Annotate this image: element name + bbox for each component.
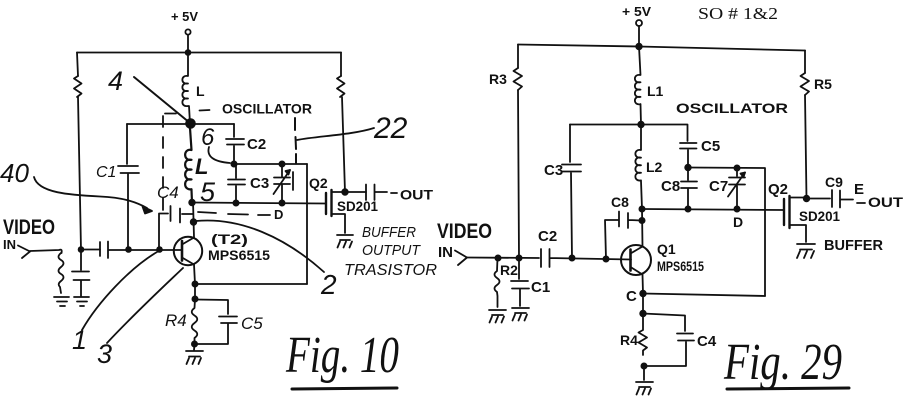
wire: left rail drop bbox=[77, 53, 78, 77]
svg-text:Q1: Q1 bbox=[657, 241, 676, 257]
svg-text:R3: R3 bbox=[489, 71, 507, 87]
svg-text:C5: C5 bbox=[701, 138, 720, 155]
wire: node4 left arm to C1 bbox=[127, 123, 190, 125]
label (T2) MPS6515 bbox=[208, 231, 271, 263]
capacitor C4 bbox=[643, 314, 717, 367]
inductor L2 bbox=[635, 125, 662, 210]
ground (R4 fig29) bbox=[636, 382, 653, 395]
svg-text:SO # 1&2: SO # 1&2 bbox=[698, 4, 778, 23]
mosfet Q2 SD201 bbox=[326, 190, 345, 233]
label Q1 MPS6515 bbox=[657, 241, 704, 274]
capacitor C8 (feedback) bbox=[605, 194, 642, 259]
svg-text:R4: R4 bbox=[165, 311, 187, 330]
svg-text:C2: C2 bbox=[247, 136, 266, 153]
svg-text:6: 6 bbox=[201, 124, 215, 151]
node: R4/C5 split bbox=[192, 296, 197, 301]
svg-text:OUTPUT: OUTPUT bbox=[362, 242, 422, 259]
inductor L2 (lower, bold) bbox=[185, 128, 192, 203]
node: emitter row C bbox=[640, 291, 646, 297]
leader curve from 40 with arrowhead bbox=[34, 177, 152, 214]
+5V supply terminal bbox=[622, 4, 651, 26]
capacitor (output coupling) bbox=[366, 185, 387, 201]
svg-text:OSCILLATOR: OSCILLATOR bbox=[222, 101, 312, 117]
wire: right feedback drop (mid row to emitter row) bbox=[306, 164, 308, 284]
capacitor C3 bbox=[228, 165, 269, 203]
wire: R3 to base row bbox=[518, 90, 519, 258]
leader curve from 22 bbox=[297, 128, 374, 140]
label VIDEO IN (fig29) bbox=[437, 220, 492, 261]
label OUT with tick bbox=[857, 194, 904, 210]
wire: top supply rail (sloped) bbox=[518, 45, 805, 51]
input chevron (fig29) bbox=[455, 251, 467, 266]
wire: emitter row to feedback drop bbox=[195, 283, 307, 285]
svg-text:BUFFER: BUFFER bbox=[362, 224, 416, 241]
node: rail junction bbox=[186, 50, 191, 55]
svg-text:L: L bbox=[195, 154, 208, 179]
dashed row with D bbox=[198, 212, 270, 215]
transistor T2 MPS6515 bbox=[174, 237, 202, 265]
svg-text:C4: C4 bbox=[157, 183, 179, 202]
label VIDEO IN bbox=[3, 216, 55, 252]
inductor L (upper) bbox=[182, 55, 190, 124]
svg-text:OSCILLATOR: OSCILLATOR bbox=[676, 100, 788, 116]
svg-text:IN: IN bbox=[3, 237, 16, 252]
svg-text:22: 22 bbox=[373, 112, 408, 145]
wire: emitter to R4 bbox=[642, 294, 644, 314]
svg-text:C3: C3 bbox=[250, 175, 269, 192]
wire: mid row (C2 bottom to box corner) bbox=[234, 163, 307, 165]
wire: right rail drop bbox=[804, 51, 806, 74]
wire: tap row (C3 to C5 corner) bbox=[570, 125, 688, 142]
svg-text:Fig. 10: Fig. 10 bbox=[285, 327, 399, 384]
svg-text:5: 5 bbox=[200, 177, 216, 207]
wire: emitter down bbox=[194, 265, 195, 285]
node: R2 junction bbox=[495, 255, 500, 260]
capacitor C4 bbox=[159, 206, 193, 250]
node: C8 bottom bbox=[685, 206, 690, 211]
svg-text:C1: C1 bbox=[96, 164, 116, 181]
node: R4/C4 split bbox=[640, 311, 646, 317]
node: L1/L2 tap bbox=[638, 122, 644, 128]
node: C7 bottom bbox=[734, 206, 739, 211]
svg-text:(T2): (T2) bbox=[211, 231, 248, 247]
label Fig. 10 (handwritten) bbox=[285, 327, 399, 389]
node 4: oscillator tap node bbox=[186, 119, 195, 128]
svg-text:C8: C8 bbox=[611, 194, 629, 210]
wire: node4 right arm to C2 bbox=[190, 123, 234, 125]
svg-text:L2: L2 bbox=[646, 159, 663, 175]
variable capacitor (trimmer) bbox=[274, 164, 294, 203]
svg-text:C4: C4 bbox=[697, 333, 717, 350]
wire: gate row bbox=[642, 209, 784, 210]
resistor R4 (squiggle) bbox=[165, 299, 197, 344]
node: emitter row bbox=[192, 281, 197, 286]
node: L2 bottom / collector top bbox=[639, 206, 644, 211]
ground (C1) bbox=[512, 308, 529, 321]
node: C5 bottom bbox=[685, 165, 691, 171]
resistor (left bias, unlabeled) bbox=[74, 76, 82, 97]
ground (R4) bbox=[186, 351, 203, 364]
transistor Q1 MPS6515 bbox=[621, 245, 651, 275]
svg-text:SD201: SD201 bbox=[337, 199, 378, 214]
svg-text:TRASISTOR: TRASISTOR bbox=[344, 262, 437, 279]
node: rail junction bbox=[636, 44, 642, 50]
svg-text:C: C bbox=[626, 288, 637, 305]
wire: base row to transistor bbox=[129, 249, 183, 251]
svg-text:C5: C5 bbox=[241, 314, 263, 333]
svg-text:C3: C3 bbox=[544, 162, 563, 179]
svg-text:OUT: OUT bbox=[868, 194, 904, 210]
wire: collector up bbox=[193, 201, 194, 238]
node: Q2 drain junction bbox=[804, 196, 810, 202]
resistor (right bias, unlabeled) bbox=[337, 76, 345, 97]
svg-text:C8: C8 bbox=[661, 178, 680, 195]
wire: gate row (node to Q2 gate) bbox=[192, 203, 326, 204]
ground (Q2 source) bbox=[797, 244, 815, 258]
ground (input) bbox=[54, 297, 69, 306]
wire: emitter to R4 bbox=[194, 284, 196, 299]
node: R4 bottom bbox=[192, 341, 197, 346]
leader curve from 3 to emitter bbox=[107, 268, 183, 343]
svg-text:MPS6515: MPS6515 bbox=[657, 259, 704, 274]
capacitor (input coupling) bbox=[100, 242, 129, 259]
leader curve from 1 to base node bbox=[82, 252, 157, 330]
node: C1 to base wire bbox=[126, 247, 131, 252]
node: varactor bottom bbox=[279, 200, 284, 205]
wire: emitter down bbox=[642, 275, 645, 294]
node: C3 to base row bbox=[569, 255, 574, 260]
input chevron bbox=[18, 246, 30, 259]
capacitor C9 bbox=[807, 174, 854, 208]
svg-text:D: D bbox=[274, 207, 283, 222]
wire: +5V stem bbox=[638, 26, 640, 47]
svg-text:C2: C2 bbox=[538, 228, 557, 245]
node: C4 left to base wire bbox=[157, 247, 162, 252]
wire: +5V stem bbox=[187, 35, 189, 53]
wire: drain to out cap bbox=[345, 191, 366, 193]
svg-text:SD201: SD201 bbox=[799, 209, 840, 224]
svg-text:D: D bbox=[733, 214, 743, 230]
node: varactor top bbox=[279, 161, 284, 166]
node: C2 bottom junction bbox=[231, 161, 236, 166]
leader curve from 6 to C2 bottom bbox=[208, 147, 230, 163]
capacitor C8 (tank) bbox=[661, 168, 697, 210]
svg-text:R4: R4 bbox=[620, 332, 638, 348]
node: collector / curve-2 tap bbox=[191, 219, 197, 225]
svg-text:R5: R5 bbox=[814, 76, 832, 92]
node: C8 left to base bbox=[603, 256, 608, 261]
svg-text:E: E bbox=[854, 181, 864, 198]
node: R4 bottom bbox=[641, 363, 646, 368]
wire: emitter row to feedback drop bbox=[643, 294, 765, 297]
wire: left rail to input row bbox=[78, 97, 81, 250]
capacitor C5 bbox=[680, 138, 720, 168]
svg-text:MPS6515: MPS6515 bbox=[208, 248, 271, 263]
capacitor (left rail bypass) bbox=[72, 250, 90, 297]
wire: right rail down to Q2 drain bbox=[342, 97, 345, 192]
node: C7 top bbox=[734, 165, 739, 170]
dashed line (feedback region) bbox=[162, 116, 164, 210]
capacitor C2 bbox=[226, 124, 266, 164]
svg-text:C1: C1 bbox=[531, 279, 550, 296]
svg-text:VIDEO: VIDEO bbox=[437, 220, 492, 243]
leader line from 4 to node bbox=[134, 77, 190, 123]
wire: top supply rail bbox=[77, 52, 341, 54]
capacitor C3 bbox=[544, 125, 581, 259]
ground (left rail bypass) bbox=[74, 297, 89, 306]
wire: to ground bbox=[643, 366, 645, 380]
capacitor C5 bbox=[195, 300, 264, 345]
svg-text:L1: L1 bbox=[647, 83, 664, 99]
wire: base row bbox=[467, 257, 539, 260]
label Fig. 29 (handwritten) bbox=[723, 334, 849, 391]
resistor (input shunt, squiggle) bbox=[59, 253, 64, 293]
wire: feedback top row bbox=[688, 168, 765, 297]
svg-text:Q2: Q2 bbox=[768, 181, 788, 198]
wire: collector up bbox=[641, 209, 644, 247]
+5V supply terminal bbox=[171, 9, 198, 35]
resistor R5 bbox=[801, 73, 833, 95]
dashed pointer below OSCILLATOR bbox=[295, 118, 296, 163]
wire: left rail drop bbox=[517, 45, 519, 69]
inductor L1 bbox=[635, 47, 664, 125]
node: drain / rail junction bbox=[342, 189, 348, 195]
mosfet Q2 SD201 bbox=[784, 196, 807, 242]
capacitor C1 bbox=[511, 258, 550, 306]
svg-text:R2: R2 bbox=[500, 262, 518, 278]
svg-text:Fig. 29: Fig. 29 bbox=[723, 334, 842, 391]
wire: to ground bbox=[193, 344, 196, 350]
svg-text:C9: C9 bbox=[825, 174, 843, 190]
node: C8 right to collector bbox=[639, 218, 644, 223]
variable capacitor C7 bbox=[709, 168, 745, 209]
svg-text:2: 2 bbox=[320, 269, 337, 300]
capacitor C2 bbox=[538, 228, 631, 267]
node: C3 bottom bbox=[233, 200, 238, 205]
svg-text:IN: IN bbox=[438, 244, 453, 261]
wire: right rail drop bbox=[340, 53, 342, 77]
resistor R4 bbox=[620, 314, 647, 356]
resistor R2 (squiggle) bbox=[495, 258, 519, 307]
node: R3/C1 base row junction bbox=[516, 255, 521, 260]
capacitor C1 bbox=[96, 124, 139, 250]
dashes near node 4 bbox=[165, 110, 210, 114]
wire: input segment bbox=[30, 250, 62, 253]
resistor R3 bbox=[489, 68, 522, 90]
svg-text:Q2: Q2 bbox=[309, 175, 328, 191]
svg-text:1: 1 bbox=[72, 325, 87, 355]
svg-text:+ 5V: + 5V bbox=[171, 9, 198, 24]
svg-text:C7: C7 bbox=[709, 178, 728, 195]
wire: R5 down to Q2 drain bbox=[805, 95, 807, 199]
svg-text:BUFFER: BUFFER bbox=[824, 237, 883, 254]
svg-text:3: 3 bbox=[97, 339, 112, 369]
node: L2 bottom bbox=[189, 200, 195, 206]
svg-text:+ 5V: + 5V bbox=[622, 4, 651, 19]
node: input row / left rail junction bbox=[79, 247, 84, 252]
label BUFFER OUTPUT TRASISTOR (handwritten) bbox=[344, 224, 437, 279]
label OUT with tick bbox=[391, 187, 433, 203]
svg-text:4: 4 bbox=[108, 66, 123, 96]
ground (Q2 source) bbox=[337, 235, 353, 248]
wire: base row from left rail bbox=[81, 249, 100, 251]
svg-text:L: L bbox=[196, 83, 205, 99]
ground (R2) bbox=[489, 310, 506, 323]
svg-text:VIDEO: VIDEO bbox=[3, 216, 55, 239]
leader curve from node to 2 bbox=[196, 220, 324, 272]
svg-text:OUT: OUT bbox=[400, 187, 433, 203]
svg-text:40: 40 bbox=[0, 158, 29, 188]
